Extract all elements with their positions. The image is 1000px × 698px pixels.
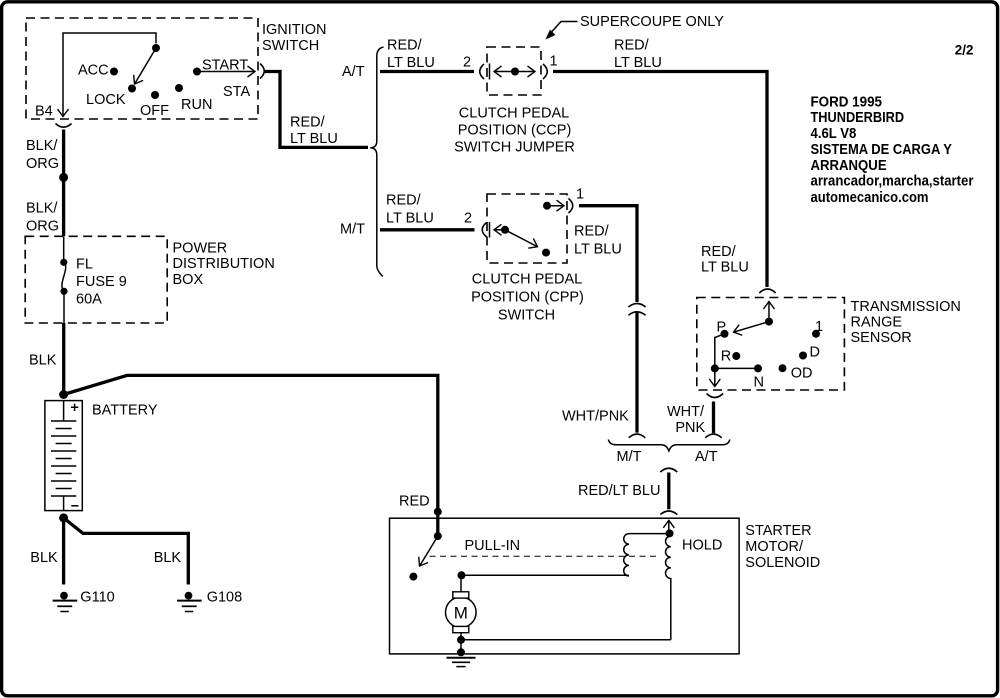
svg-text:LT BLU: LT BLU xyxy=(574,242,622,258)
svg-text:SENSOR: SENSOR xyxy=(851,330,912,346)
svg-text:HOLD: HOLD xyxy=(682,538,722,554)
svg-text:FUSE 9: FUSE 9 xyxy=(76,274,127,290)
svg-text:PULL-IN: PULL-IN xyxy=(465,538,521,554)
svg-text:ORG: ORG xyxy=(26,156,59,172)
svg-text:FORD 1995: FORD 1995 xyxy=(811,94,883,110)
svg-text:SUPERCOUPE ONLY: SUPERCOUPE ONLY xyxy=(580,14,724,30)
svg-text:BLK/: BLK/ xyxy=(26,138,58,154)
svg-text:ACC: ACC xyxy=(78,63,109,79)
svg-text:BLK/: BLK/ xyxy=(26,201,58,217)
svg-text:WHT/: WHT/ xyxy=(667,404,705,420)
svg-text:1: 1 xyxy=(550,54,558,70)
svg-text:M: M xyxy=(454,604,468,623)
svg-text:RANGE: RANGE xyxy=(851,315,903,331)
svg-text:PNK: PNK xyxy=(675,420,705,436)
svg-text:ARRANQUE: ARRANQUE xyxy=(811,158,887,174)
svg-text:2: 2 xyxy=(464,211,472,227)
svg-text:LT BLU: LT BLU xyxy=(701,260,749,276)
svg-text:RED/: RED/ xyxy=(574,224,610,240)
svg-text:arrancador,marcha,starter: arrancador,marcha,starter xyxy=(811,174,974,190)
svg-text:TRANSMISSION: TRANSMISSION xyxy=(851,299,961,315)
svg-text:SOLENOID: SOLENOID xyxy=(745,555,820,571)
svg-text:SWITCH: SWITCH xyxy=(262,38,319,54)
svg-text:BOX: BOX xyxy=(173,272,204,288)
svg-text:SWITCH JUMPER: SWITCH JUMPER xyxy=(454,140,575,156)
svg-text:G110: G110 xyxy=(80,590,114,606)
svg-text:POSITION (CPP): POSITION (CPP) xyxy=(471,290,584,306)
svg-text:M/T: M/T xyxy=(340,222,365,238)
svg-text:LOCK: LOCK xyxy=(86,92,126,108)
svg-text:OD: OD xyxy=(791,366,813,382)
svg-text:STA: STA xyxy=(223,84,250,100)
svg-text:POWER: POWER xyxy=(173,241,228,257)
svg-text:BLK: BLK xyxy=(30,550,58,566)
svg-text:RED/: RED/ xyxy=(614,38,650,54)
svg-text:RED/: RED/ xyxy=(701,244,737,260)
svg-text:ORG: ORG xyxy=(26,219,59,235)
svg-text:DISTRIBUTION: DISTRIBUTION xyxy=(173,256,275,272)
svg-text:BATTERY: BATTERY xyxy=(92,403,158,419)
svg-text:60A: 60A xyxy=(76,292,102,308)
svg-text:LT BLU: LT BLU xyxy=(386,211,434,227)
svg-text:BLK: BLK xyxy=(154,550,182,566)
svg-text:1: 1 xyxy=(815,319,823,335)
svg-text:4.6L V8: 4.6L V8 xyxy=(811,126,857,142)
svg-text:RED/: RED/ xyxy=(387,38,423,54)
svg-text:P: P xyxy=(717,320,727,336)
svg-text:BLK: BLK xyxy=(29,353,57,369)
svg-text:WHT/PNK: WHT/PNK xyxy=(562,409,629,425)
svg-text:RED/: RED/ xyxy=(290,115,326,131)
svg-text:RED/: RED/ xyxy=(386,193,422,209)
svg-text:CLUTCH PEDAL: CLUTCH PEDAL xyxy=(459,106,569,122)
svg-text:FL: FL xyxy=(76,257,93,273)
svg-text:N: N xyxy=(754,375,764,391)
svg-text:B4: B4 xyxy=(35,104,53,120)
svg-text:LT BLU: LT BLU xyxy=(387,55,435,71)
svg-text:D: D xyxy=(810,345,820,361)
svg-text:SISTEMA DE CARGA Y: SISTEMA DE CARGA Y xyxy=(811,142,953,158)
svg-text:THUNDERBIRD: THUNDERBIRD xyxy=(811,110,905,126)
svg-text:STARTER: STARTER xyxy=(745,523,811,539)
svg-text:R: R xyxy=(721,349,731,365)
svg-text:RED: RED xyxy=(399,494,430,510)
svg-text:M/T: M/T xyxy=(617,449,642,465)
svg-text:RUN: RUN xyxy=(181,97,212,113)
svg-text:2/2: 2/2 xyxy=(955,43,974,58)
svg-text:SWITCH: SWITCH xyxy=(498,308,555,324)
svg-text:LT BLU: LT BLU xyxy=(614,55,662,71)
svg-text:RED/LT BLU: RED/LT BLU xyxy=(578,483,660,499)
svg-text:MOTOR/: MOTOR/ xyxy=(745,539,804,555)
svg-text:G108: G108 xyxy=(207,590,242,606)
svg-text:OFF: OFF xyxy=(140,103,169,119)
svg-text:POSITION (CCP): POSITION (CCP) xyxy=(458,123,572,139)
svg-text:START: START xyxy=(202,58,248,74)
svg-text:automecanico.com: automecanico.com xyxy=(811,190,929,206)
svg-text:LT BLU: LT BLU xyxy=(290,131,338,147)
svg-text:A/T: A/T xyxy=(342,64,365,80)
svg-text:IGNITION: IGNITION xyxy=(262,22,326,38)
svg-text:1: 1 xyxy=(576,187,584,203)
svg-text:A/T: A/T xyxy=(695,449,718,465)
svg-text:CLUTCH PEDAL: CLUTCH PEDAL xyxy=(472,272,582,288)
svg-text:2: 2 xyxy=(463,55,471,71)
